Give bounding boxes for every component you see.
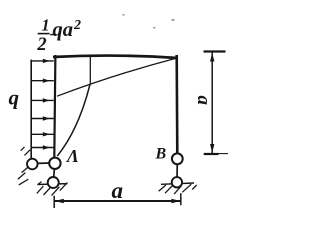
svg-text:a: a (112, 178, 124, 203)
svg-text:qa: qa (53, 19, 74, 41)
svg-text:2: 2 (73, 18, 81, 33)
svg-text:2: 2 (36, 35, 46, 55)
svg-text:Λ: Λ (65, 146, 79, 166)
svg-text:q: q (9, 86, 20, 110)
svg-text:a: a (193, 96, 214, 106)
svg-text:1: 1 (41, 16, 49, 35)
svg-text:B: B (155, 146, 167, 163)
